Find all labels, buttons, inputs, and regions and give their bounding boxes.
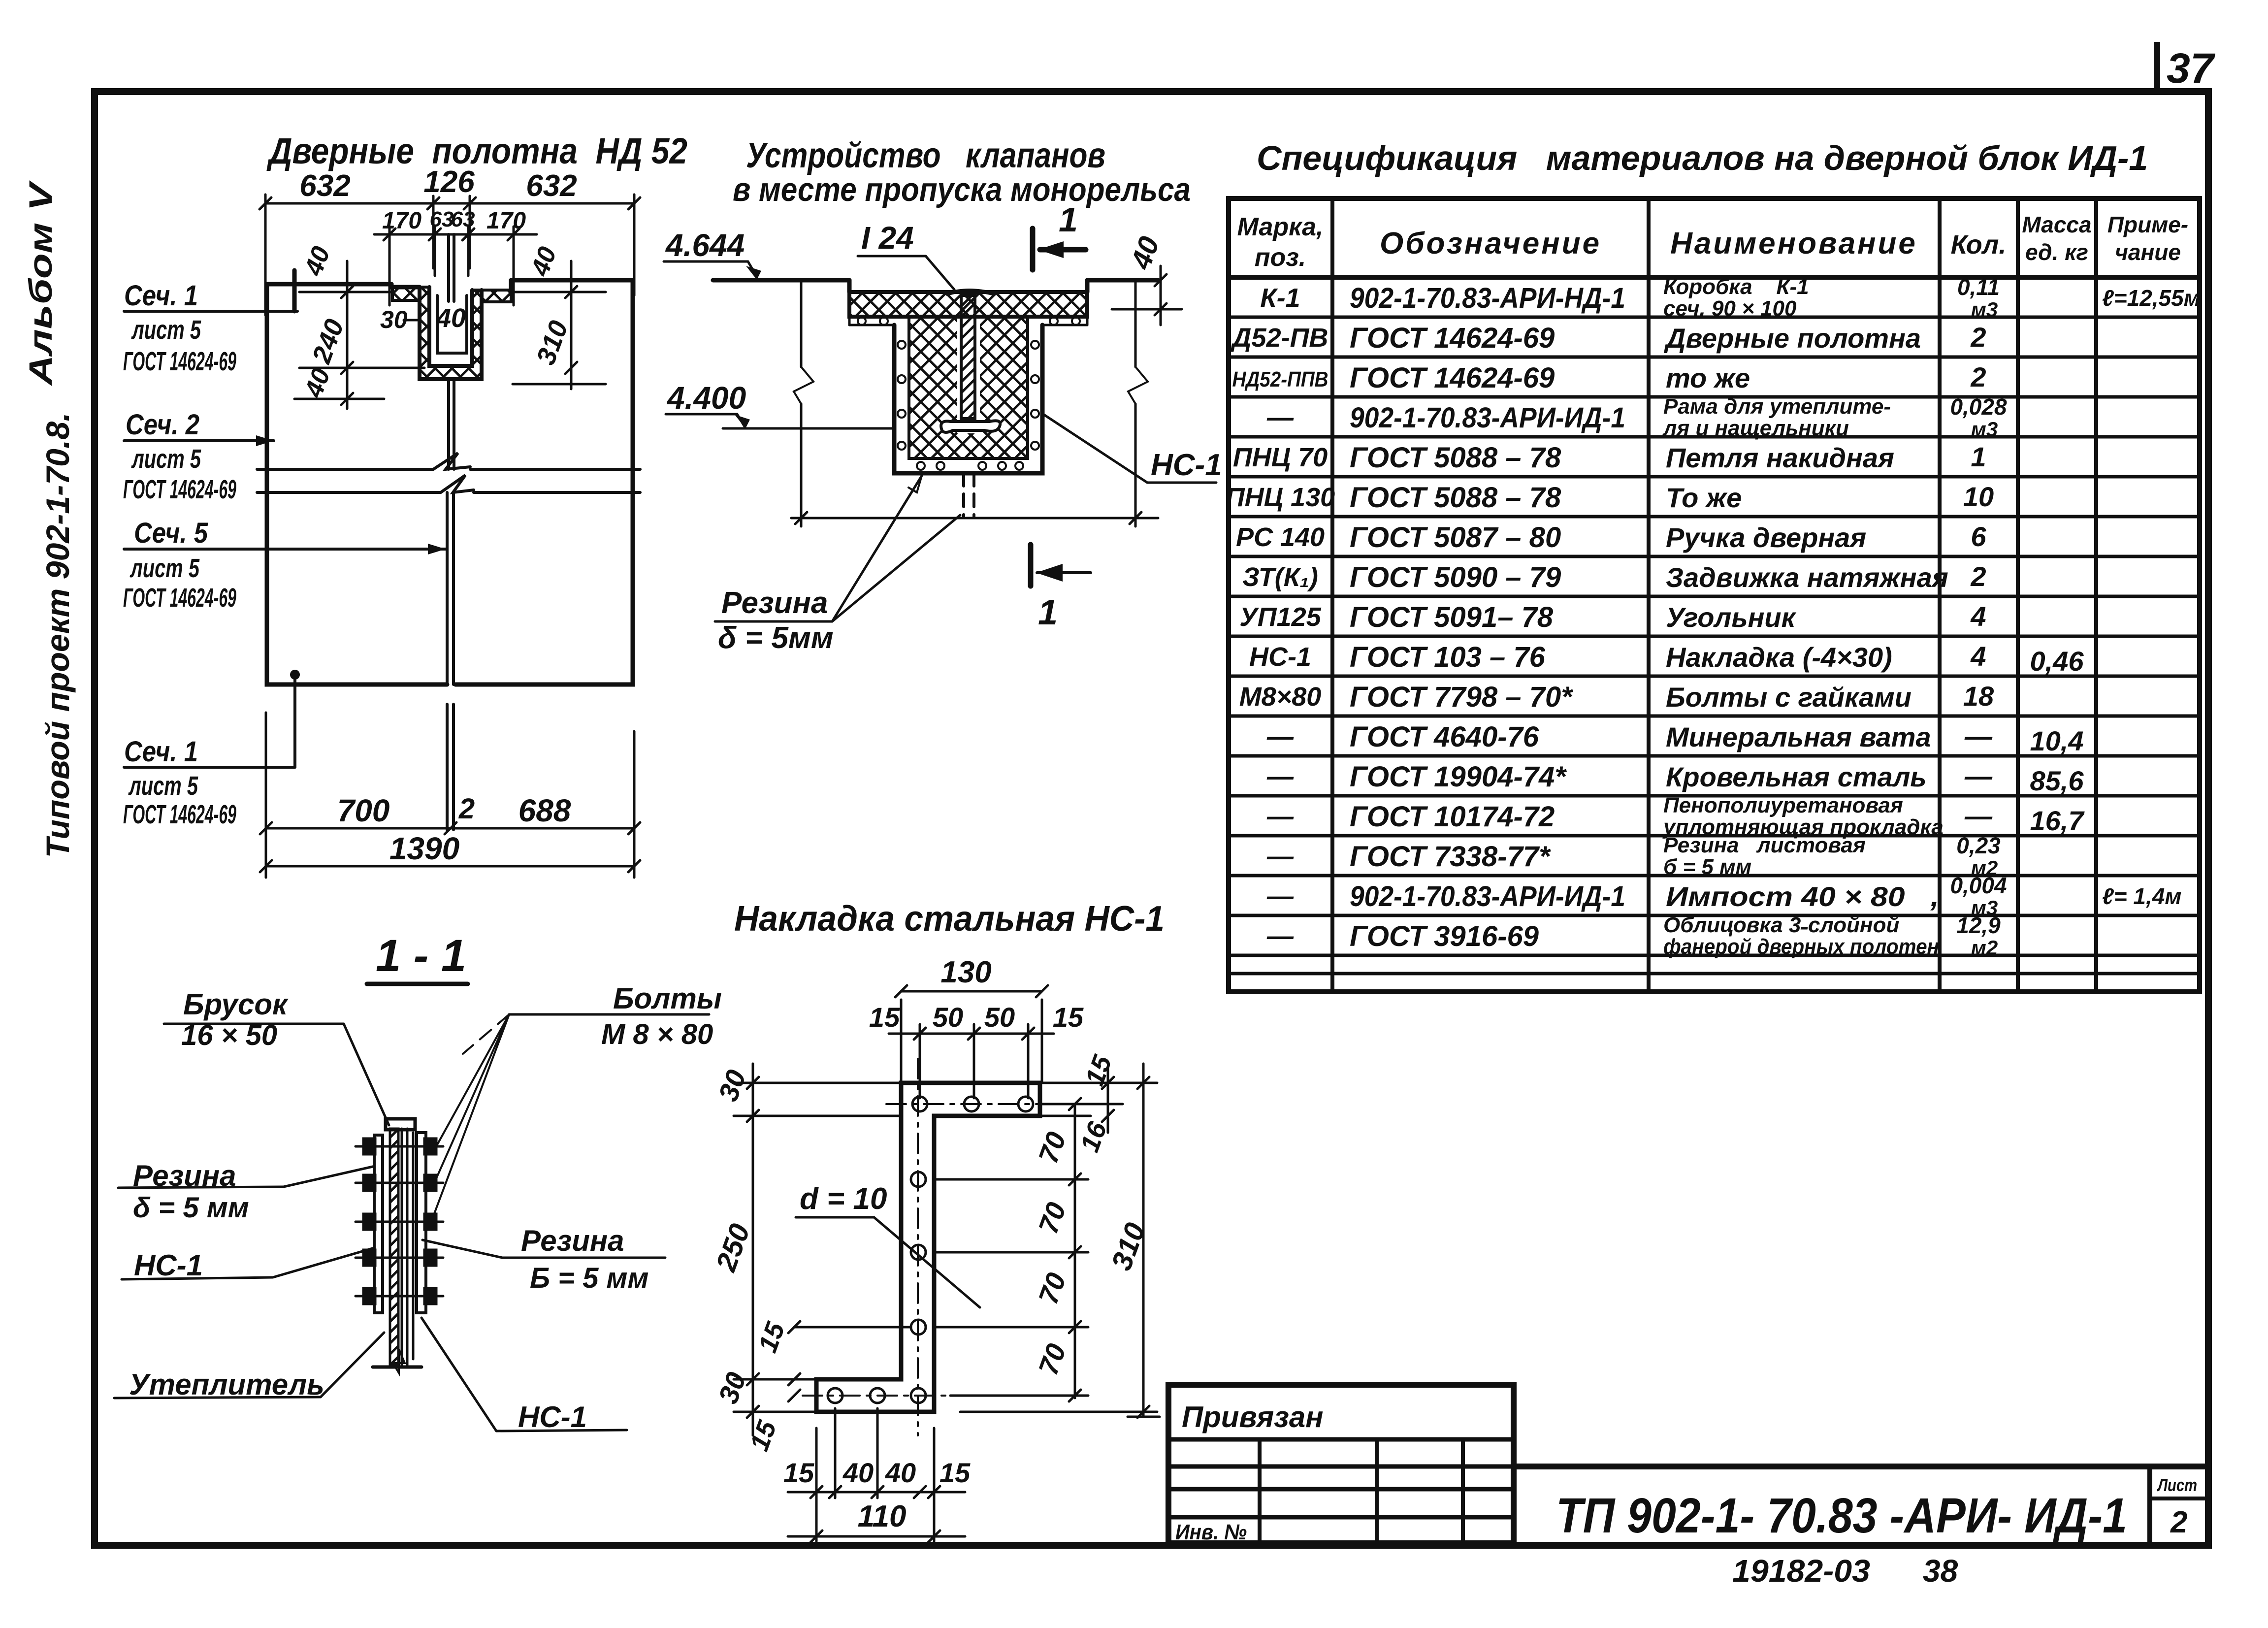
central wood bar hatched xyxy=(390,1129,398,1365)
section pointer Sech5 xyxy=(124,544,446,554)
svg-text:ГОСТ 3916-69: ГОСТ 3916-69 xyxy=(1350,920,1539,952)
rubber strip below box dashed xyxy=(964,473,974,517)
svg-text:ГОСТ 7338-77*: ГОСТ 7338-77* xyxy=(1350,841,1551,873)
svg-text:—: — xyxy=(1266,762,1294,791)
channel outer U hatched xyxy=(420,287,482,379)
svg-text:2: 2 xyxy=(1970,361,1986,392)
section pointer Sech1 bottom xyxy=(124,670,300,767)
svg-text:лист 5: лист 5 xyxy=(131,315,201,345)
section pointer Sech2 xyxy=(124,435,274,446)
svg-text:1 - 1: 1 - 1 xyxy=(376,931,466,981)
svg-text:18: 18 xyxy=(1963,681,1994,712)
svg-text:Типовой проект 902-1-70.8.: Типовой проект 902-1-70.8. xyxy=(39,412,76,858)
svg-text:ГОСТ 14624-69: ГОСТ 14624-69 xyxy=(123,347,236,376)
svg-text:Пенополиуретановая: Пенополиуретановая xyxy=(1663,793,1903,817)
svg-text:К-1: К-1 xyxy=(1260,283,1300,313)
dim 40 top right xyxy=(1112,266,1182,325)
svg-text:2: 2 xyxy=(458,793,475,825)
svg-text:м2: м2 xyxy=(1971,936,1998,959)
dim line 632/126/632 xyxy=(259,195,640,315)
svg-text:63: 63 xyxy=(451,207,475,231)
svg-text:0,46: 0,46 xyxy=(2030,646,2084,677)
insulation hatch fill xyxy=(909,301,957,458)
svg-text:Угольник: Угольник xyxy=(1666,602,1797,633)
svg-text:632: 632 xyxy=(526,169,577,203)
svg-text:Альбом V: Альбом V xyxy=(22,180,59,387)
svg-text:Петля накидная: Петля накидная xyxy=(1666,442,1894,473)
svg-text:Импост 40 × 80 ,: Импост 40 × 80 , xyxy=(1666,881,1939,912)
svg-text:ℓ= 1,4м: ℓ= 1,4м xyxy=(2102,883,2181,909)
left dims 30 250 15 30 15 xyxy=(734,1064,911,1435)
svg-text:6: 6 xyxy=(1971,521,1986,552)
right 40 and 310 dims xyxy=(513,261,606,389)
rebate ledges hatched xyxy=(392,287,420,300)
svg-text:Инв. №: Инв. № xyxy=(1175,1520,1247,1544)
svg-text:М 8 × 80: М 8 × 80 xyxy=(601,1018,713,1050)
hatched top band xyxy=(849,292,1087,317)
centrelines dash-dot xyxy=(803,1059,1054,1435)
svg-text:2: 2 xyxy=(1970,561,1986,592)
svg-text:50: 50 xyxy=(933,1002,963,1033)
svg-text:Коробка К-1: Коробка К-1 xyxy=(1663,275,1809,299)
plate outline xyxy=(816,1083,1040,1412)
break lines across leaves xyxy=(257,453,640,492)
svg-text:ГОСТ 5091– 78: ГОСТ 5091– 78 xyxy=(1350,601,1554,633)
svg-text:50: 50 xyxy=(984,1002,1015,1033)
svg-text:12,9: 12,9 xyxy=(1956,912,2001,938)
svg-text:ГОСТ 14624-69: ГОСТ 14624-69 xyxy=(123,583,236,613)
box wall bolts xyxy=(898,341,1039,470)
svg-text:4: 4 xyxy=(1970,641,1986,672)
svg-text:0,23: 0,23 xyxy=(1956,833,2001,858)
right door leaf outline xyxy=(455,280,633,684)
svg-text:УП125: УП125 xyxy=(1239,602,1321,632)
svg-text:4.644: 4.644 xyxy=(665,228,745,263)
svg-text:б = 5 мм: б = 5 мм xyxy=(1663,855,1751,879)
svg-text:ГОСТ 103 – 76: ГОСТ 103 – 76 xyxy=(1350,641,1546,673)
svg-text:1: 1 xyxy=(1038,593,1058,632)
svg-text:ГОСТ 14624-69: ГОСТ 14624-69 xyxy=(123,800,236,829)
svg-text:в месте пропуска монорельса: в месте пропуска монорельса xyxy=(733,171,1191,208)
dim line 170/63 63/170 xyxy=(374,227,537,305)
svg-text:δ = 5мм: δ = 5мм xyxy=(718,621,834,655)
svg-text:Кол.: Кол. xyxy=(1951,230,2007,260)
svg-text:19182-03: 19182-03 xyxy=(1732,1553,1870,1589)
svg-text:Задвижка натяжная: Задвижка натяжная xyxy=(1666,562,1948,593)
svg-text:ГОСТ 5087 – 80: ГОСТ 5087 – 80 xyxy=(1350,521,1561,554)
svg-text:688: 688 xyxy=(518,793,571,828)
svg-text:37: 37 xyxy=(2167,45,2216,92)
leaf panel strips xyxy=(401,1129,403,1365)
svg-text:10: 10 xyxy=(1963,481,1994,512)
centre impost line upper xyxy=(449,234,454,301)
svg-text:ГОСТ 5090 – 79: ГОСТ 5090 – 79 xyxy=(1350,561,1561,593)
svg-text:1390: 1390 xyxy=(389,831,459,866)
svg-text:126: 126 xyxy=(423,165,475,199)
svg-text:Брусок: Брусок xyxy=(183,988,289,1021)
svg-text:170: 170 xyxy=(382,208,421,234)
svg-text:М8×80: М8×80 xyxy=(1239,682,1322,712)
svg-text:—: — xyxy=(1266,921,1294,951)
svg-text:—: — xyxy=(1266,881,1294,911)
svg-text:130: 130 xyxy=(940,955,991,989)
channel inner rubber U xyxy=(437,295,467,353)
left door leaf outline xyxy=(267,270,447,684)
ceiling top lines xyxy=(713,280,1158,292)
svg-text:поз.: поз. xyxy=(1255,243,1306,272)
svg-text:902-1-70.83-АРИ-ИД-1: 902-1-70.83-АРИ-ИД-1 xyxy=(1350,402,1625,434)
svg-text:1: 1 xyxy=(1971,441,1986,472)
section mark 1 bottom xyxy=(1031,545,1091,586)
svg-text:632: 632 xyxy=(299,169,350,203)
bottom dims 15 40 40 15 xyxy=(788,1408,965,1542)
svg-text:Обозначение: Обозначение xyxy=(1380,227,1601,260)
svg-text:0,004: 0,004 xyxy=(1950,873,2007,898)
svg-text:ГОСТ 5088 – 78: ГОСТ 5088 – 78 xyxy=(1350,442,1561,474)
left 40 rotated dim xyxy=(294,261,424,409)
svg-text:Минеральная вата: Минеральная вата xyxy=(1666,721,1931,752)
page corner tick xyxy=(2154,42,2160,94)
svg-text:—: — xyxy=(1266,802,1294,831)
svg-text:Сеч. 5: Сеч. 5 xyxy=(134,517,208,549)
svg-text:Резина листовая: Резина листовая xyxy=(1663,833,1866,857)
svg-text:15: 15 xyxy=(1053,1002,1084,1033)
svg-text:лист 5: лист 5 xyxy=(130,554,200,583)
svg-text:Резина: Резина xyxy=(521,1224,624,1257)
svg-text:Накладка стальная НС-1: Накладка стальная НС-1 xyxy=(734,899,1165,939)
svg-text:Кровельная сталь: Кровельная сталь xyxy=(1666,761,1927,792)
svg-text:м3: м3 xyxy=(1971,298,1998,321)
svg-text:40: 40 xyxy=(436,303,466,333)
box inner wall line xyxy=(909,317,1028,458)
svg-text:110: 110 xyxy=(858,1499,907,1533)
svg-text:ГОСТ 14624-69: ГОСТ 14624-69 xyxy=(1350,322,1555,354)
svg-text:НС-1: НС-1 xyxy=(134,1249,203,1282)
left NS-1 strap xyxy=(374,1135,383,1313)
svg-text:НС-1: НС-1 xyxy=(1151,448,1222,482)
svg-text:Накладка (-4×30): Накладка (-4×30) xyxy=(1666,642,1892,673)
svg-text:Рама для утеплите-: Рама для утеплите- xyxy=(1663,394,1891,419)
svg-text:902-1-70.83-АРИ-НД-1: 902-1-70.83-АРИ-НД-1 xyxy=(1350,282,1625,314)
svg-text:700: 700 xyxy=(337,793,390,828)
svg-text:1: 1 xyxy=(1059,200,1078,239)
svg-text:2: 2 xyxy=(1970,322,1986,353)
svg-text:то же: то же xyxy=(1666,362,1750,393)
svg-text:Болты: Болты xyxy=(613,982,722,1015)
svg-text:ГОСТ 10174-72: ГОСТ 10174-72 xyxy=(1350,801,1555,833)
svg-text:40: 40 xyxy=(885,1457,916,1488)
svg-text:РС 140: РС 140 xyxy=(1236,522,1325,552)
svg-text:ЗТ(К₁): ЗТ(К₁) xyxy=(1242,562,1318,592)
centre impost lower xyxy=(447,492,454,684)
svg-text:902-1-70.83-АРИ-ИД-1: 902-1-70.83-АРИ-ИД-1 xyxy=(1350,880,1625,912)
svg-text:38: 38 xyxy=(1923,1553,1958,1589)
svg-text:То же: То же xyxy=(1666,482,1742,513)
right dims 15 16 xyxy=(1040,1069,1157,1133)
dim 15 50 50 15 xyxy=(889,1024,1054,1098)
svg-text:I 24: I 24 xyxy=(861,220,914,256)
I-beam I24 web xyxy=(961,295,975,419)
svg-text:—: — xyxy=(1266,842,1294,871)
svg-text:—: — xyxy=(1266,722,1294,751)
holes top flange xyxy=(828,1097,1033,1403)
dim 310 overall xyxy=(960,1064,1160,1418)
right extension line with break xyxy=(1128,280,1148,526)
bar 16x50 top cap xyxy=(386,1119,415,1130)
svg-text:d = 10: d = 10 xyxy=(800,1182,887,1216)
svg-text:85,6: 85,6 xyxy=(2030,765,2084,796)
bottom reference line xyxy=(791,517,1158,520)
section pointer Sech1 top xyxy=(124,310,297,313)
svg-text:ед. кг: ед. кг xyxy=(2025,239,2088,265)
svg-text:Спецификация материалов на д: Спецификация материалов на дверной блок … xyxy=(1257,139,2148,177)
svg-text:Лист: Лист xyxy=(2157,1475,2197,1495)
svg-text:δ = 5 мм: δ = 5 мм xyxy=(133,1192,249,1224)
svg-text:НС-1: НС-1 xyxy=(518,1400,587,1433)
svg-text:Дверные полотна: Дверные полотна xyxy=(1664,323,1921,354)
svg-text:63: 63 xyxy=(430,207,454,231)
svg-text:Сеч. 1: Сеч. 1 xyxy=(124,736,198,768)
svg-text:0,11: 0,11 xyxy=(1957,274,2000,300)
I-beam bottom flange xyxy=(941,421,1000,432)
right dim chain 70x4 xyxy=(934,1098,1088,1401)
svg-text:Наименование: Наименование xyxy=(1670,227,1917,260)
svg-text:ПНЦ 70: ПНЦ 70 xyxy=(1233,443,1328,472)
svg-text:Сеч. 1: Сеч. 1 xyxy=(124,280,198,312)
centre impost line in channel xyxy=(449,379,454,469)
svg-text:Привязан: Привязан xyxy=(1182,1400,1323,1433)
svg-text:Резина: Резина xyxy=(721,586,828,620)
svg-text:4.400: 4.400 xyxy=(666,380,746,416)
svg-text:ТП 902-1- 70.83 -АРИ- ИД-1: ТП 902-1- 70.83 -АРИ- ИД-1 xyxy=(1556,1488,2127,1543)
svg-text:15: 15 xyxy=(783,1457,814,1488)
valve box outer xyxy=(894,325,1042,473)
svg-text:ГОСТ 5088 – 78: ГОСТ 5088 – 78 xyxy=(1350,482,1561,514)
I-beam top flange xyxy=(947,291,994,294)
svg-text:Облицовка 3˗слойной: Облицовка 3˗слойной xyxy=(1663,913,1899,937)
bolts M8x80 xyxy=(356,1139,443,1304)
svg-text:ГОСТ 7798 – 70*: ГОСТ 7798 – 70* xyxy=(1350,681,1573,713)
svg-text:2: 2 xyxy=(2170,1505,2187,1539)
svg-text:—: — xyxy=(1266,403,1294,432)
svg-text:м3: м3 xyxy=(1971,418,1998,441)
svg-text:Приме-: Приме- xyxy=(2107,212,2188,237)
svg-text:фанерой дверных полотен: фанерой дверных полотен xyxy=(1663,935,1939,959)
svg-text:15: 15 xyxy=(940,1457,971,1488)
svg-text:—: — xyxy=(1964,720,1993,751)
svg-text:16,7: 16,7 xyxy=(2030,805,2085,836)
section mark 1 top xyxy=(1033,228,1086,270)
svg-text:Сеч. 2: Сеч. 2 xyxy=(126,409,199,441)
svg-text:сеч. 90 × 100: сеч. 90 × 100 xyxy=(1663,296,1797,321)
svg-text:Дверные полотна НД 52: Дверные полотна НД 52 xyxy=(266,130,687,171)
svg-text:15: 15 xyxy=(869,1002,900,1033)
svg-text:Б = 5 мм: Б = 5 мм xyxy=(530,1262,648,1294)
svg-text:Ручка дверная: Ручка дверная xyxy=(1666,522,1866,553)
svg-text:Д52-ПВ: Д52-ПВ xyxy=(1231,323,1328,353)
svg-text:ГОСТ 4640-76: ГОСТ 4640-76 xyxy=(1350,721,1539,753)
svg-text:Болты с гайками: Болты с гайками xyxy=(1666,682,1912,713)
svg-text:10,4: 10,4 xyxy=(2030,725,2084,756)
svg-text:—: — xyxy=(1964,800,1993,831)
svg-text:Устройство клапанов: Устройство клапанов xyxy=(746,136,1105,175)
main title bar xyxy=(1514,1464,2208,1469)
band bolt row xyxy=(849,317,1087,325)
spec table grid xyxy=(1229,198,2200,992)
bottom cap xyxy=(373,1366,421,1369)
left extension line with break xyxy=(794,280,813,526)
svg-text:чание: чание xyxy=(2115,239,2181,265)
right NS-1 strap xyxy=(417,1133,426,1313)
svg-text:ГОСТ 14624-69: ГОСТ 14624-69 xyxy=(1350,362,1555,394)
svg-text:НД52-ППВ: НД52-ППВ xyxy=(1232,367,1328,391)
svg-text:40: 40 xyxy=(842,1457,874,1488)
privyazan box xyxy=(1168,1385,1514,1543)
svg-text:4: 4 xyxy=(1970,601,1986,632)
dim 130 xyxy=(895,985,1048,1083)
svg-text:ГОСТ 19904-74*: ГОСТ 19904-74* xyxy=(1350,761,1567,793)
lower centre line below drawing xyxy=(447,704,454,830)
svg-text:лист 5: лист 5 xyxy=(131,444,201,474)
svg-text:ля и нащельники: ля и нащельники xyxy=(1662,416,1849,440)
bottom dims 700 2 688 xyxy=(260,713,640,878)
svg-text:лист 5: лист 5 xyxy=(128,771,198,801)
svg-text:Марка,: Марка, xyxy=(1237,213,1324,241)
svg-text:ПНЦ 130: ПНЦ 130 xyxy=(1226,483,1335,512)
svg-text:—: — xyxy=(1964,760,1993,791)
svg-text:0,028: 0,028 xyxy=(1950,394,2007,420)
svg-text:НС-1: НС-1 xyxy=(1249,642,1311,672)
svg-text:170: 170 xyxy=(486,208,526,234)
svg-text:ℓ=12,55м: ℓ=12,55м xyxy=(2102,285,2201,311)
svg-text:Масса: Масса xyxy=(2022,212,2091,237)
svg-text:ГОСТ 14624-69: ГОСТ 14624-69 xyxy=(123,475,236,504)
